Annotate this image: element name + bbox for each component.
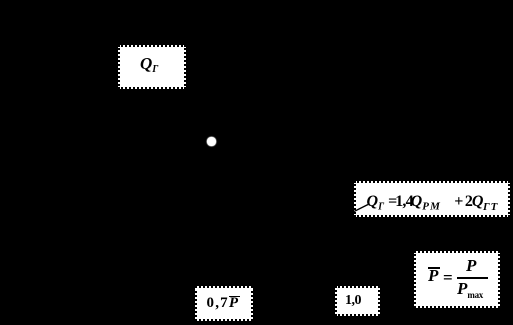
overbar of P-bar — [428, 267, 440, 269]
label Q_Г — [140, 55, 158, 75]
callout box 0,7P (bottom middle-left) — [195, 286, 253, 321]
formula Q_Г = 1,4Q_РМ + 2Q_ГТ — [367, 194, 499, 213]
fraction numerator P — [466, 257, 476, 274]
equals sign — [443, 269, 453, 286]
label 1,0 — [345, 294, 361, 308]
white point marker — [207, 137, 216, 147]
callout box 1,0 (bottom middle) — [335, 286, 380, 316]
fraction bar — [457, 277, 488, 279]
callout box Q_Г (top left) — [118, 45, 186, 89]
callout box P-bar = P / Pmax (bottom right) — [414, 251, 500, 308]
P-bar — [428, 267, 438, 284]
label 0,7P-bar — [207, 296, 240, 311]
overbar of 0,7P — [229, 296, 240, 298]
callout box Q_Г = 1,4Q_РМ + 2Q_ГТ (right) — [354, 181, 510, 217]
fraction denominator P max — [457, 280, 483, 300]
leader line into formula box — [354, 202, 370, 213]
